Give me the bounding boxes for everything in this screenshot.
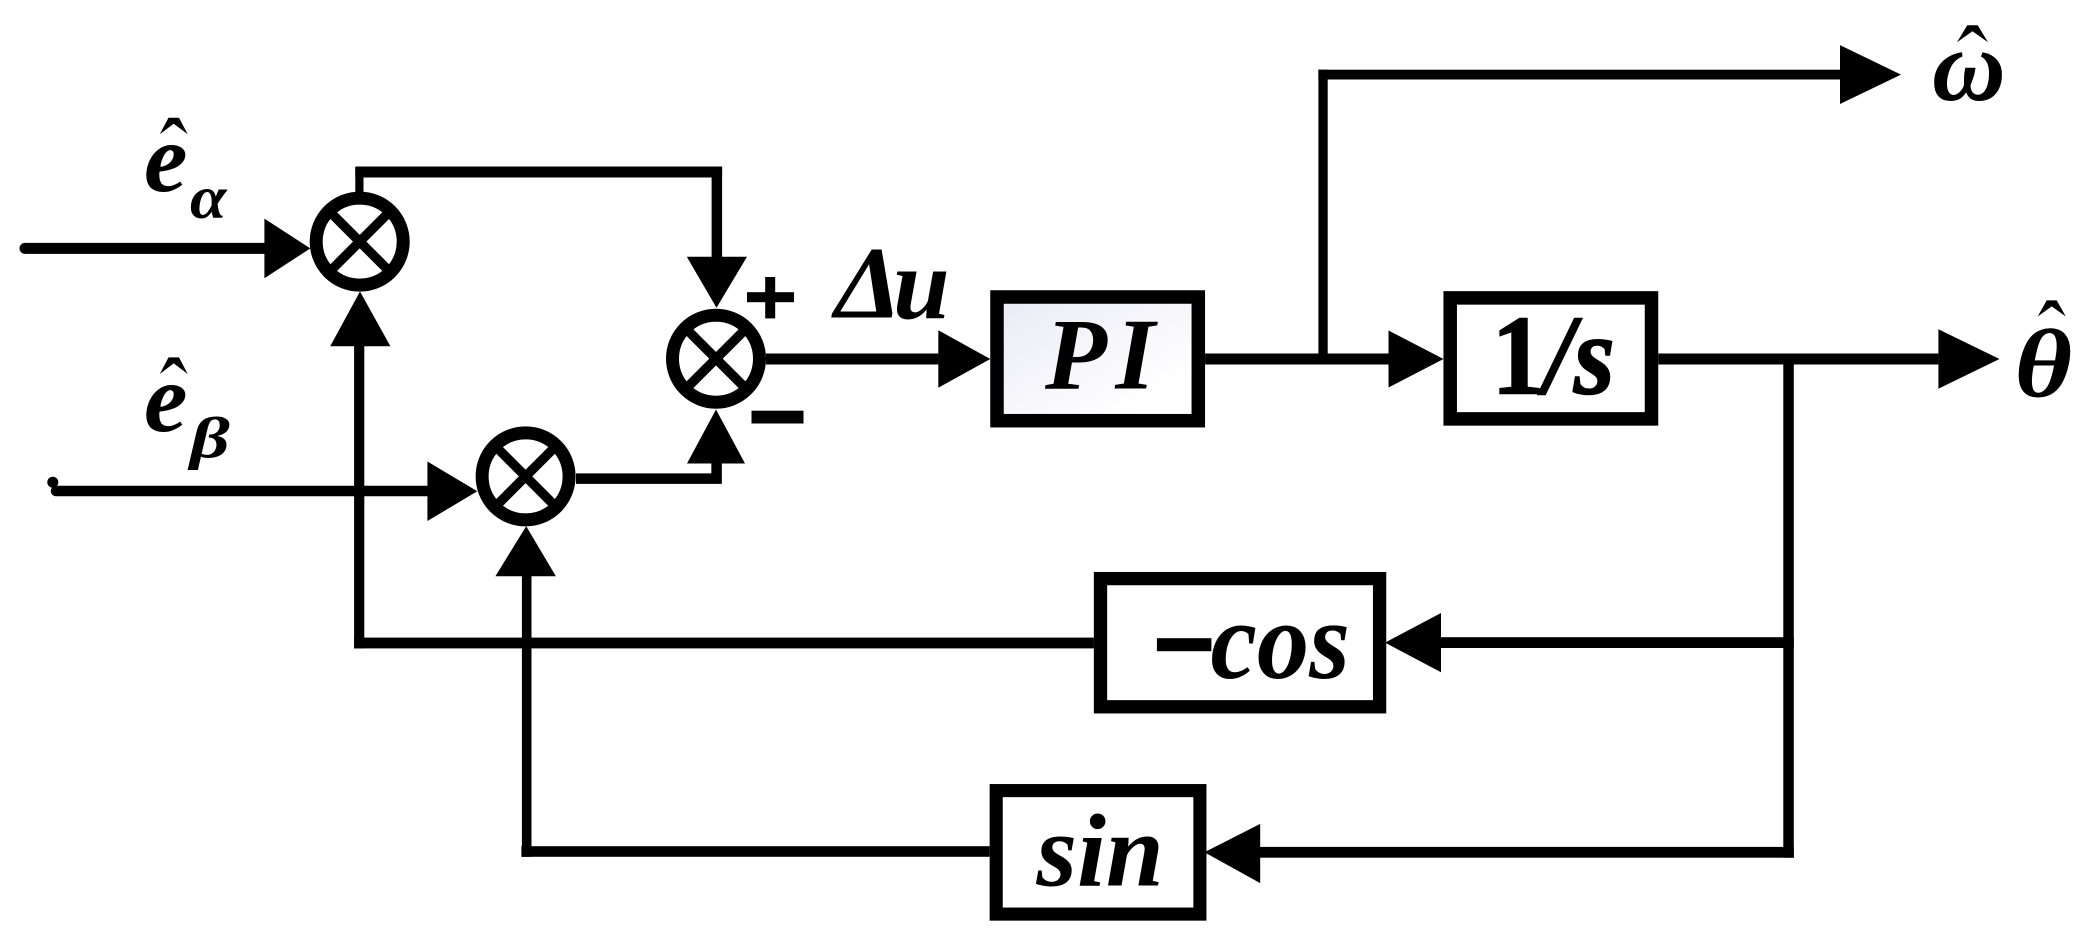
svg-text:Δ: Δ (831, 226, 902, 340)
svg-text:cos: cos (1211, 580, 1350, 703)
wire: feed into -cos block (1440, 637, 1794, 648)
wire: omega output rail (1318, 70, 1840, 80)
wire: multiplier M2 output to summing junction (576, 458, 717, 479)
svg-text:1/s: 1/s (1492, 293, 1615, 418)
plus sign at summing junction (747, 277, 794, 318)
arrowhead into M1 bottom (330, 292, 390, 347)
arrowhead into multiplier M2 (427, 462, 477, 522)
arrowhead into multiplier M1 (264, 219, 310, 279)
arrowhead into PI (938, 330, 990, 387)
wire: drop into summing junction top (712, 167, 723, 258)
wire: M1 top stub (355, 167, 363, 194)
wire: 1/s output to theta (1658, 354, 1938, 365)
arrowhead theta output (1938, 329, 1999, 389)
wire: e_alpha input line (25, 243, 265, 254)
wire: top rail from M1 to summing junction (355, 167, 722, 178)
svg-text:β: β (187, 406, 230, 470)
arrowhead into summing junction bottom (687, 410, 745, 464)
arrowhead into summing junction top (687, 257, 747, 308)
wire: vertical up to M2 (522, 576, 532, 857)
wire: summing junction output to PI (766, 354, 938, 365)
multiplier M2 (482, 433, 569, 520)
node label e_beta hat (160, 357, 188, 374)
arrowhead into sin (1204, 824, 1260, 883)
node label theta hat accent (2038, 300, 2066, 316)
svg-text:θ: θ (2015, 310, 2073, 418)
wire: feedback vertical from main line (1783, 354, 1794, 858)
svg-text:ω: ω (1932, 10, 2006, 123)
block PI (997, 297, 1198, 421)
arrowhead into -cos (1385, 613, 1441, 672)
svg-text:α: α (190, 163, 227, 231)
block 1/s (1450, 293, 1651, 419)
wire: feed into sin block (1258, 847, 1794, 858)
wire: PI output to 1/s (1205, 354, 1388, 365)
minus sign at summing junction (752, 411, 804, 424)
svg-text:u: u (893, 229, 950, 342)
wire: sin output to M2 vertical (521, 846, 989, 857)
svg-text:e: e (144, 345, 188, 453)
svg-text:PI: PI (1044, 299, 1164, 411)
wire: -cos output to left vertical (354, 638, 1094, 649)
arrowhead into M2 bottom (495, 526, 556, 576)
wire: left vertical up to M1 (354, 346, 364, 648)
block sin (996, 791, 1200, 915)
arrowhead omega output (1840, 45, 1901, 104)
block -cos (1101, 579, 1380, 707)
wire: e_beta input line (56, 486, 427, 497)
wire: branch up from main line (1318, 70, 1327, 364)
svg-text:e: e (144, 105, 188, 213)
dot at e_beta line end (47, 477, 58, 488)
summing junction S (673, 315, 760, 402)
arrowhead into 1/s (1389, 331, 1444, 388)
svg-text:sin: sin (1036, 794, 1164, 909)
multiplier M1 (316, 198, 403, 285)
node label e_alpha hat (160, 118, 188, 135)
node label omega hat accent (1957, 25, 1988, 42)
